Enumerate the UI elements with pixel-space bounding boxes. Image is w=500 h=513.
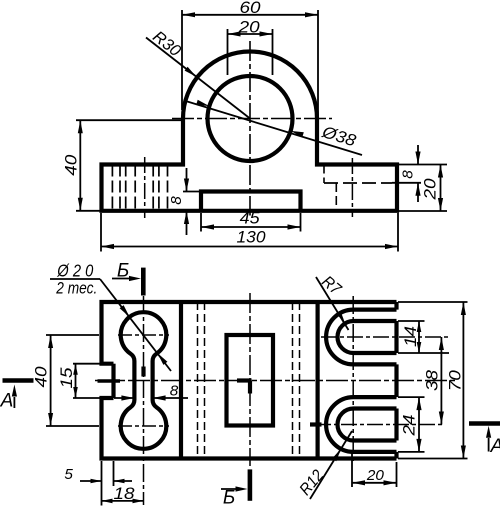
dumbbell slot (two O20 holes + neck) [121, 312, 167, 449]
front view outline (base + boss) [102, 52, 398, 211]
lower circle horizontal centerline [118, 425, 169, 427]
svg-text:20: 20 [422, 178, 440, 201]
svg-text:40: 40 [62, 154, 80, 176]
dimension 20 front right [399, 165, 447, 212]
svg-text:8: 8 [400, 170, 417, 179]
svg-text:15: 15 [58, 367, 76, 389]
svg-text:А: А [490, 436, 500, 457]
section A-A end bar right [469, 421, 500, 426]
section A-A corner at center [237, 378, 252, 382]
svg-text:18: 18 [114, 485, 136, 503]
lower fork horizontal centerline [315, 424, 445, 426]
top view right edge segments [394, 302, 398, 310]
top view horizontal centerline [95, 380, 458, 382]
front view hole circle O38 [208, 76, 293, 161]
hidden edge line 1 [197, 302, 199, 459]
svg-text:Б: Б [223, 488, 235, 509]
right slot centerline [351, 158, 353, 217]
divider line left (boss side projection) [179, 302, 183, 459]
radius leader R30 [146, 28, 250, 119]
dimension 24 [398, 397, 425, 452]
section B-B jog thick segment [141, 367, 145, 377]
leader O20 2 holes [50, 261, 171, 372]
left slot projection line 2 [119, 165, 121, 211]
hidden edge line 2 [204, 302, 206, 459]
radius leader R12 [296, 431, 352, 499]
dimension 8 front left [168, 168, 201, 235]
top view outline [102, 302, 397, 364]
divider line right (boss side projection) [316, 302, 320, 459]
right slot hidden depth line [324, 182, 392, 184]
svg-text:А: А [0, 391, 13, 412]
left slot projection line 7 [167, 165, 169, 211]
diameter leader O38 [184, 100, 362, 155]
dimension 15 [58, 364, 100, 398]
upper U-slot (R12 outer / R7 inner) [326, 310, 396, 365]
dimension 45 [201, 209, 301, 231]
section A-A thick segment lower fork [310, 422, 322, 426]
svg-text:8: 8 [168, 196, 185, 205]
hidden edge line 4 [299, 302, 301, 459]
right slot hidden line vertical inner [335, 183, 337, 211]
upper fork horizontal centerline [321, 336, 449, 338]
dimension 70 [398, 302, 468, 459]
central rectangular slot [227, 335, 274, 426]
dimension 14 [398, 321, 449, 353]
front view bottom notch 45x8 [201, 192, 301, 211]
svg-text:Б: Б [117, 261, 129, 282]
dimension 40 bottom left [33, 335, 100, 426]
dimension 8 front right [392, 145, 447, 202]
dimension 5 [64, 461, 132, 486]
upper circle horizontal centerline [118, 334, 169, 336]
svg-text:40: 40 [33, 366, 51, 388]
svg-text:Ø 2 0: Ø 2 0 [56, 261, 93, 281]
section arrow A left [0, 385, 17, 412]
svg-text:60: 60 [240, 0, 262, 17]
dumbbell centerline vertical [143, 296, 145, 505]
svg-text:14: 14 [402, 326, 420, 347]
svg-text:130: 130 [237, 229, 267, 247]
section A-A trace start bar [3, 378, 34, 383]
dimension 40 front left [62, 120, 182, 211]
svg-text:45: 45 [240, 209, 261, 227]
dimension 130 [101, 213, 398, 252]
svg-text:38: 38 [423, 369, 441, 391]
top view vertical centerline [249, 293, 251, 466]
radius leader R7 [316, 273, 349, 330]
section trace thick segment at left edge [98, 379, 121, 383]
dimension 18 [102, 485, 144, 506]
svg-text:20: 20 [238, 19, 261, 37]
left slot projection line 4 [134, 165, 136, 211]
hidden edge line 3 [292, 302, 294, 459]
left slot projection line 5 [152, 165, 154, 211]
lower U-slot (R12 outer / R7 inner) [326, 397, 396, 452]
dimension 38 [423, 337, 444, 425]
left slot projection line 1 [111, 165, 113, 211]
front view vertical centerline [249, 41, 251, 216]
section arrow B bottom [221, 469, 250, 508]
right slot hidden line vertical outer [323, 165, 325, 184]
svg-text:70: 70 [447, 369, 465, 391]
svg-text:5: 5 [64, 466, 73, 483]
dimension 20 bottom [352, 450, 397, 487]
section arrow A right [486, 426, 500, 457]
svg-text:2 тес.: 2 тес. [55, 279, 97, 298]
dimension 20 top [228, 19, 273, 76]
svg-text:24: 24 [401, 415, 419, 437]
section arrow B top [112, 261, 143, 296]
svg-text:8: 8 [170, 383, 179, 400]
dimension 60 top [182, 0, 318, 118]
front view horizontal centerline [172, 118, 332, 120]
left slot centerline [144, 157, 146, 218]
left slot projection line 6 [158, 165, 160, 211]
dimension 8 neck [114, 383, 188, 401]
fork centerline vertical [352, 296, 354, 463]
svg-text:20: 20 [366, 467, 385, 484]
left slot projection line 3 [125, 165, 127, 211]
